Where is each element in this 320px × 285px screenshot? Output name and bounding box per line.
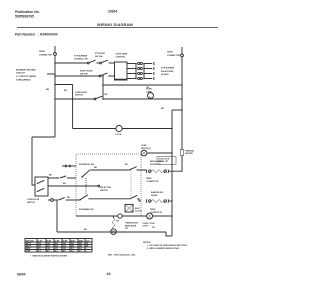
svg-text:WIRING DIAGRAM: WIRING DIAGRAM — [97, 23, 133, 27]
thermal limiter on rail — [180, 150, 183, 156]
svg-text:1012: 1012 — [63, 245, 67, 247]
top burner element row 3 — [127, 72, 154, 75]
svg-text:BK: BK — [105, 94, 108, 96]
node door drop — [56, 199, 58, 201]
door lock motor M1 — [141, 150, 147, 156]
wire door sw top y178 — [48, 177, 59, 179]
svg-text:OVEN: OVEN — [146, 89, 152, 91]
svg-text:SWITCH: SWITCH — [100, 190, 108, 192]
oven door switch S1 box — [35, 177, 48, 196]
svg-text:8.75: 8.75 — [38, 248, 41, 250]
svg-text:TOP BURNER: TOP BURNER — [161, 68, 175, 70]
buzzer on bottom line — [118, 214, 122, 218]
svg-text:10.8: 10.8 — [79, 248, 82, 250]
svg-text:OVEN CYCLE: OVEN CYCLE — [143, 223, 156, 225]
svg-text:BK: BK — [84, 229, 87, 231]
selector switch assembly box (dashed) — [76, 154, 141, 216]
svg-text:CLOCK: CLOCK — [135, 211, 142, 213]
title part number — [15, 33, 58, 37]
svg-text:BROIL: BROIL — [71, 240, 76, 242]
svg-text:RT FRONT: RT FRONT — [95, 53, 106, 55]
svg-text:* - HEATING ELEMENT RATINGS SH: * - HEATING ELEMENT RATINGS SHOWN — [30, 254, 68, 257]
title publication number — [15, 10, 40, 19]
switch bake arm — [79, 199, 81, 201]
notes block — [143, 227, 188, 250]
svg-text:3000: 3000 — [71, 243, 75, 245]
label rod broil sw — [79, 164, 94, 166]
clock timer box — [125, 204, 133, 212]
label thermal limiter — [185, 149, 195, 155]
svg-text:3000W: 3000W — [150, 164, 156, 166]
svg-text:22.1: 22.1 — [79, 251, 82, 253]
label top burner elem — [146, 67, 175, 89]
wire surface feed y76 — [55, 75, 99, 77]
label selector switch — [100, 187, 111, 192]
oven indicator lamp B3 — [111, 229, 117, 235]
switch broil arm — [81, 176, 83, 178]
mechanical link — [85, 178, 87, 194]
svg-text:SW 30A: SW 30A — [95, 55, 103, 58]
svg-text:BROIL ELEM: BROIL ELEM — [150, 161, 163, 163]
svg-text:1350: 1350 — [63, 243, 67, 245]
svg-text:2100: 2100 — [55, 243, 59, 245]
svg-text:A REQUIRED): A REQUIRED) — [16, 78, 31, 81]
wire oven lamp line y98 — [55, 98, 94, 100]
svg-text:Publication No.: Publication No. — [15, 10, 40, 14]
svg-text:1575: 1575 — [55, 245, 59, 247]
thermostat coil — [113, 216, 115, 218]
svg-text:5.62: 5.62 — [63, 248, 66, 250]
wire left rail L1 — [54, 55, 56, 137]
svg-text:SELECTOR: SELECTOR — [100, 187, 111, 189]
component rating table — [25, 239, 92, 253]
svg-text:OHMS: OHMS — [26, 251, 31, 253]
header rule — [17, 26, 218, 28]
node lamp line — [54, 98, 183, 100]
svg-text:BK: BK — [64, 90, 67, 92]
label burner ground circuit — [16, 70, 36, 82]
wire bottom y216 — [76, 215, 147, 217]
svg-text:THERMOSTAT: THERMOSTAT — [125, 222, 139, 225]
svg-text:SWITCH: SWITCH — [27, 202, 35, 204]
svg-text:OVEN TEMP: OVEN TEMP — [116, 54, 128, 56]
svg-text:5995398765: 5995398765 — [15, 15, 34, 19]
svg-text:RIGHT REAR: RIGHT REAR — [80, 70, 93, 73]
svg-text:ROD/BROIL SW: ROD/BROIL SW — [79, 164, 94, 166]
svg-text:BK: BK — [125, 164, 128, 166]
svg-text:ROD/BAKE SW: ROD/BAKE SW — [79, 208, 94, 211]
svg-text:20304: 20304 — [108, 10, 117, 14]
svg-text:2100: 2100 — [38, 243, 42, 245]
wire lock drop — [72, 85, 74, 129]
svg-text:CONNECTOR: CONNECTOR — [167, 55, 180, 57]
wire bottom step — [166, 232, 172, 236]
mechanical link 2 — [130, 168, 132, 196]
svg-text:19.2: 19.2 — [71, 251, 74, 253]
surface unit switch box U1 — [115, 62, 128, 80]
svg-text:208: 208 — [86, 245, 89, 247]
svg-text:1575: 1575 — [38, 245, 42, 247]
svg-text:BK: BK — [63, 183, 66, 185]
svg-text:VOLT: VOLT — [86, 240, 90, 242]
svg-text:1 - NOT USED ON SOME MODELS AN: 1 - NOT USED ON SOME MODELS AND TYPES — [147, 244, 188, 247]
svg-text:BK: BK — [67, 197, 70, 199]
svg-text:LOCK: LOCK — [116, 134, 122, 136]
wire rail jog y137 — [32, 136, 55, 138]
svg-text:TERM: TERM — [150, 209, 156, 211]
node L1 taps — [54, 62, 56, 85]
svg-text:SURF UNIT: SURF UNIT — [26, 240, 34, 242]
footer date — [17, 273, 26, 277]
switch top burner control — [87, 62, 89, 64]
svg-text:BAKE: BAKE — [79, 239, 83, 242]
svg-text:LIMITER: LIMITER — [185, 153, 193, 155]
svg-text:BK: BK — [49, 175, 52, 177]
svg-text:BK: BK — [161, 108, 165, 110]
wire ground stub — [47, 73, 55, 75]
svg-text:1950: 1950 — [79, 245, 83, 247]
wire door sw low y200 — [48, 199, 51, 201]
switch broil contact — [129, 167, 136, 170]
svg-text:CONTROL SW: CONTROL SW — [74, 58, 88, 60]
wire right rail L2 — [181, 57, 183, 172]
top burner element row 4 — [127, 77, 154, 80]
svg-text:CIRCUIT: CIRCUIT — [16, 73, 26, 75]
svg-text:2600: 2600 — [79, 243, 83, 245]
wire lock line y128 — [73, 128, 116, 130]
wire right inner rail — [171, 110, 173, 236]
svg-text:SWITCH: SWITCH — [75, 95, 83, 97]
top burner element row 2 — [127, 67, 154, 70]
svg-text:CONNECTOR: CONNECTOR — [146, 181, 159, 183]
svg-text:L1 CIRCUIT (WHEN: L1 CIRCUIT (WHEN — [16, 76, 36, 78]
svg-text:TM: TM — [116, 220, 119, 222]
svg-text:: K04000000: : K04000000 — [38, 33, 58, 37]
node y85 — [102, 84, 183, 86]
svg-text:TERM: TERM — [146, 178, 152, 180]
terminal connector right — [181, 47, 183, 54]
footer page number — [107, 272, 111, 276]
title wiring diagram — [97, 23, 133, 27]
oven cycle light B2 — [147, 213, 153, 219]
doc revision — [108, 253, 136, 256]
svg-text:(4) 240V: (4) 240V — [161, 73, 169, 76]
bake element E2 — [146, 191, 172, 214]
svg-text:CONV: CONV — [141, 145, 147, 147]
svg-text:W/H - TM (1/2/4) (2/02) - R03: W/H - TM (1/2/4) (2/02) - R03 — [108, 253, 136, 256]
top burner element row 1 — [127, 62, 154, 65]
wire motor to rail — [147, 152, 172, 154]
svg-text:THERMAL: THERMAL — [185, 149, 195, 152]
svg-text:2600W: 2600W — [151, 195, 157, 197]
svg-text:TOP BURNER: TOP BURNER — [74, 55, 88, 57]
svg-text:2250: 2250 — [71, 245, 75, 247]
wire door drop x57 — [56, 200, 58, 232]
node lock — [171, 128, 173, 130]
switch oven light — [94, 98, 96, 100]
svg-text:2 - BROIL ELEMENTS RATED AT 24: 2 - BROIL ELEMENTS RATED AT 240V — [147, 247, 180, 250]
wire lamp feed drop x103 — [102, 76, 104, 99]
svg-text:NOTES:: NOTES: — [143, 242, 151, 244]
relay label box — [157, 157, 176, 166]
switch right rear — [99, 75, 101, 77]
oven lamp B1 — [146, 89, 154, 99]
svg-text:LIGHT: LIGHT — [143, 226, 150, 228]
svg-text:TM: TM — [152, 227, 155, 229]
svg-text:LAMP: LAMP — [146, 90, 152, 93]
svg-text:BAKE ELEM: BAKE ELEM — [151, 191, 163, 194]
svg-text:BK: BK — [46, 89, 50, 91]
title model number — [108, 10, 117, 14]
wire top burner feed y61 — [55, 62, 87, 64]
table footnote — [30, 254, 68, 257]
wire lock feed tap — [55, 84, 73, 86]
svg-text:1012: 1012 — [47, 245, 51, 247]
svg-text:5.62: 5.62 — [47, 248, 50, 250]
svg-text:Part Number: Part Number — [15, 33, 36, 37]
svg-text:BK: BK — [94, 167, 97, 169]
svg-text:OVEN LIGHT: OVEN LIGHT — [75, 92, 88, 94]
wire BK jog y110 — [172, 109, 182, 111]
svg-text:ELEM 2350W: ELEM 2350W — [161, 71, 174, 73]
svg-text:TERM: TERM — [39, 51, 45, 53]
terminal connector left — [54, 46, 56, 53]
wire door sw mid y186 — [48, 185, 98, 187]
lock solenoid — [116, 125, 122, 131]
svg-text:OVEN DOOR: OVEN DOOR — [27, 199, 40, 201]
top burner element ladder rails — [135, 64, 137, 79]
svg-text:TERM: TERM — [167, 51, 173, 53]
svg-text:08/04: 08/04 — [17, 273, 26, 277]
svg-text:MOTOR (1): MOTOR (1) — [141, 148, 151, 150]
svg-text:1350: 1350 — [47, 243, 51, 245]
wire bottom return y232 — [57, 231, 166, 233]
wire left rail lower — [32, 137, 35, 185]
label BK node — [46, 89, 50, 91]
wire L2 return y85 — [103, 84, 182, 86]
svg-text:BAKE ELEM: BAKE ELEM — [125, 224, 137, 227]
svg-text:12.5: 12.5 — [71, 248, 74, 250]
svg-text:SW TOP: SW TOP — [80, 73, 89, 75]
svg-text:TM: TM — [125, 228, 128, 230]
svg-text:CONNECTOR: CONNECTOR — [39, 54, 52, 56]
svg-text:CONTROL: CONTROL — [116, 57, 127, 59]
connector plug y166 — [62, 165, 76, 167]
svg-text:44: 44 — [107, 272, 111, 276]
svg-text:8.75: 8.75 — [55, 248, 58, 250]
svg-text:ELEC: ELEC — [135, 208, 141, 210]
broil element E1 — [141, 161, 182, 183]
switch bake contact — [130, 195, 137, 198]
switch right front — [100, 62, 102, 64]
svg-text:BURNER GROUND: BURNER GROUND — [16, 70, 36, 72]
